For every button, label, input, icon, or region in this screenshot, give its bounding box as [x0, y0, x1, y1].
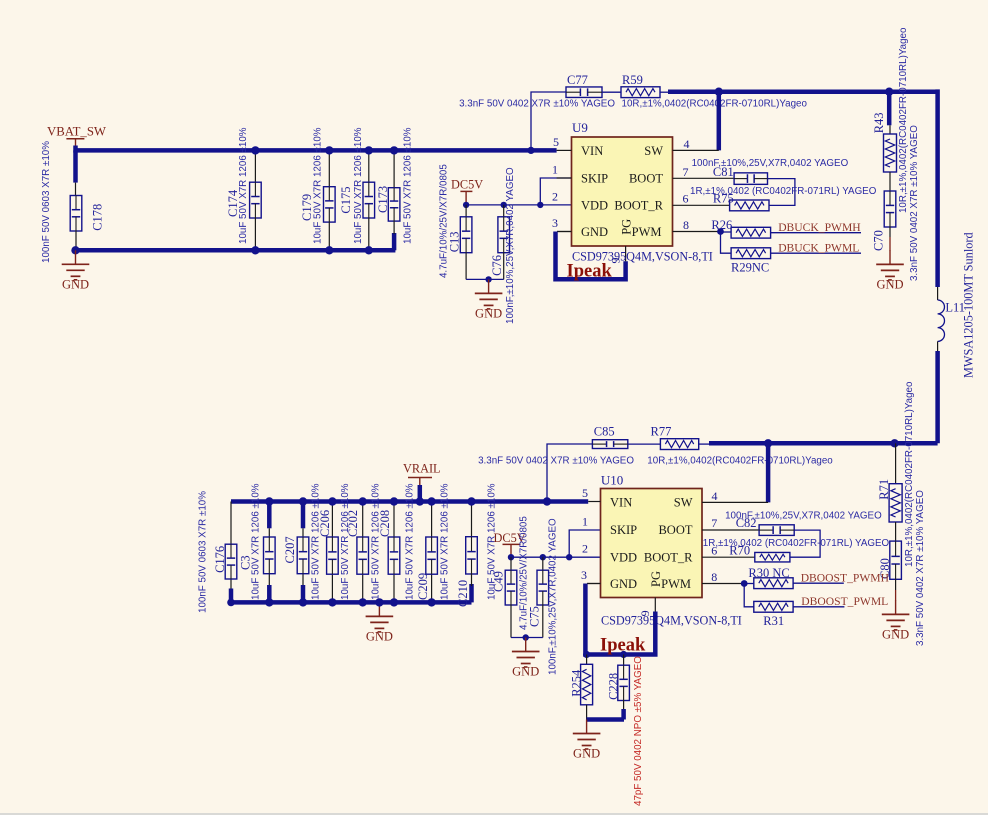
svg-text:VIN: VIN — [610, 495, 632, 509]
wire R77 to right bus — [699, 442, 938, 445]
svg-text:C207: C207 — [283, 536, 297, 563]
node DBOOST_PWMH label — [801, 571, 890, 584]
svg-text:BOOT: BOOT — [658, 523, 692, 537]
resistor R30 (NC) — [744, 566, 793, 589]
junction C85 branch — [543, 497, 551, 505]
wire R254/C228 ground rail — [587, 709, 624, 720]
pin 5 VIN U10 — [582, 486, 632, 509]
capacitor C77 — [459, 73, 615, 110]
op-amp U10 power stage body — [601, 473, 703, 598]
junction C13/C76 gnd — [485, 276, 491, 282]
svg-text:R59: R59 — [622, 73, 643, 87]
wire Ipeak U9 loop — [556, 232, 626, 280]
capacitor C81 — [692, 158, 849, 184]
node DC5V power label top — [451, 178, 483, 205]
junction PWM branch U10 — [741, 580, 748, 587]
svg-text:DBOOST_PWMH: DBOOST_PWMH — [801, 571, 890, 584]
svg-text:Ipeak: Ipeak — [567, 262, 613, 282]
node Ipeak U10 label — [600, 636, 646, 656]
junction C75 top — [540, 554, 546, 560]
svg-text:R43: R43 — [872, 112, 886, 133]
svg-text:C75: C75 — [528, 606, 542, 627]
ground C80 — [882, 600, 910, 641]
capacitor C209 — [416, 483, 451, 602]
svg-text:3: 3 — [552, 216, 558, 230]
junction C209 bottom — [427, 598, 435, 606]
svg-text:7: 7 — [711, 516, 717, 530]
capacitor C178 — [41, 141, 105, 263]
junction C173 top — [390, 146, 398, 154]
svg-text:3: 3 — [581, 568, 587, 582]
junction C76 top — [501, 202, 507, 208]
junction C3 bottom — [265, 598, 273, 606]
svg-text:10uF 50V X7R 1206 ±10%: 10uF 50V X7R 1206 ±10% — [340, 483, 351, 600]
wire SW drop — [717, 92, 722, 151]
svg-text:7: 7 — [683, 165, 689, 179]
junction DC5V stem — [463, 202, 469, 208]
svg-text:VDD: VDD — [581, 198, 608, 212]
svg-text:VBAT_SW: VBAT_SW — [47, 125, 107, 139]
svg-text:4: 4 — [684, 137, 690, 151]
node VRAIL power label — [403, 462, 441, 488]
node Ipeak U9 label — [567, 262, 613, 282]
resistor R71 — [877, 381, 915, 567]
wire C80 to ground — [895, 579, 897, 601]
wire R59 to SW node top bus — [660, 91, 938, 94]
junction top bank gnd corner — [71, 246, 79, 254]
svg-text:R71: R71 — [877, 479, 891, 500]
junction C208 bottom — [390, 598, 398, 606]
svg-text:10R,±1%,0402(RC0402FR-0710RL)Y: 10R,±1%,0402(RC0402FR-0710RL)Yageo — [904, 381, 915, 567]
wire R43 stub — [887, 92, 892, 134]
junction C202 bottom — [359, 598, 367, 606]
svg-text:BOOT_R: BOOT_R — [614, 198, 663, 212]
junction SW drop U10 — [764, 439, 772, 447]
pin 1 SKIP — [552, 162, 608, 185]
junction C179 bottom — [325, 246, 333, 254]
pin 2 VDD U10 — [582, 542, 637, 565]
pin 1 SKIP U10 — [582, 514, 637, 537]
junction C179 top — [325, 146, 333, 154]
wire C13/C76 ground rail — [466, 278, 504, 280]
pin 6 BOOT_R — [614, 192, 729, 213]
wire C85 to R77 — [628, 443, 661, 445]
node DBUCK_PWMH label — [778, 221, 861, 234]
svg-text:SW: SW — [674, 495, 693, 509]
op-amp U9 power stage body — [572, 120, 673, 246]
pin 4 SW — [644, 137, 719, 158]
ground C13/C76 — [475, 279, 503, 320]
capacitor C82 — [725, 510, 882, 535]
svg-text:GND: GND — [62, 277, 89, 291]
resistor R75 — [690, 186, 877, 211]
svg-text:R31: R31 — [763, 614, 784, 628]
svg-text:DBUCK_PWMH: DBUCK_PWMH — [778, 221, 861, 234]
svg-text:GND: GND — [610, 577, 637, 591]
junction VRAIL stem — [416, 497, 424, 505]
svg-text:GND: GND — [475, 306, 502, 320]
resistor R77 — [647, 424, 833, 466]
wire top bank GND rail — [76, 233, 396, 250]
capacitor C80 — [878, 490, 926, 646]
svg-text:3.3nF 50V 0402 X7R ±10% YAGEO: 3.3nF 50V 0402 X7R ±10% YAGEO — [478, 456, 634, 467]
junction C208 top — [390, 497, 398, 505]
junction C210 top — [467, 497, 475, 505]
junction C77 branch — [527, 147, 534, 154]
svg-text:PG: PG — [620, 219, 634, 235]
svg-text:C206: C206 — [318, 510, 332, 537]
svg-text:C202: C202 — [346, 510, 360, 537]
svg-text:C175: C175 — [339, 187, 353, 214]
svg-text:8: 8 — [683, 218, 689, 232]
svg-text:U9: U9 — [572, 120, 588, 135]
svg-text:GND: GND — [573, 747, 600, 761]
svg-text:100nF,±10%,25V,X7R,0402 YAGEO: 100nF,±10%,25V,X7R,0402 YAGEO — [547, 518, 558, 675]
wire R31 to DBOOST_PWML — [793, 606, 844, 608]
svg-text:R77: R77 — [651, 424, 672, 438]
svg-text:PWM: PWM — [661, 577, 691, 591]
junction R71 branch — [890, 439, 898, 447]
svg-text:4.7uF/10%/25V/X7R/0805: 4.7uF/10%/25V/X7R/0805 — [439, 164, 450, 278]
node DBUCK_PWML label — [778, 242, 859, 255]
svg-text:10R,±1%,0402(RC0402FR-0710RL)Y: 10R,±1%,0402(RC0402FR-0710RL)Yageo — [622, 99, 808, 110]
junction PWM branch — [717, 228, 724, 235]
svg-text:6: 6 — [683, 192, 689, 206]
svg-text:2: 2 — [552, 189, 558, 203]
resistor R26 — [711, 218, 770, 238]
capacitor C173 — [376, 127, 414, 244]
wire inductor to bottom bus — [937, 341, 939, 443]
capacitor C3 — [239, 483, 276, 602]
resistor R43 — [872, 27, 909, 213]
junction C175 top — [365, 146, 373, 154]
capacitor C208 — [378, 483, 416, 602]
wire C176 risers — [230, 502, 232, 603]
svg-text:MWSA1205-100MT Sunlord: MWSA1205-100MT Sunlord — [961, 232, 975, 378]
wire C77 to R59 — [602, 91, 621, 93]
resistor R70 — [703, 538, 890, 562]
capacitor C70 — [872, 125, 921, 281]
svg-text:3.3nF 50V 0402 X7R ±10% YAGEO: 3.3nF 50V 0402 X7R ±10% YAGEO — [909, 125, 920, 281]
pin 9 PG U10 — [638, 571, 663, 616]
wire BOOT loop U10 — [790, 530, 820, 557]
junction SKIP jog — [537, 202, 543, 208]
svg-text:SW: SW — [644, 144, 663, 158]
wire BOOT loop — [768, 179, 795, 206]
wire R30 to DBOOST_PWMH — [793, 582, 844, 584]
svg-text:C176: C176 — [213, 546, 227, 573]
junction C175 bottom — [365, 246, 373, 254]
node DC5V power label bottom — [494, 531, 526, 557]
resistor R59 — [621, 73, 808, 110]
svg-text:1: 1 — [582, 514, 588, 528]
wire DC5V to U10 VDD — [511, 556, 601, 558]
svg-text:R29NC: R29NC — [731, 261, 769, 275]
svg-text:SKIP: SKIP — [610, 523, 637, 537]
wire Ipeak U10 loop — [585, 584, 655, 655]
capacitor C85 — [478, 424, 634, 466]
svg-text:C178: C178 — [91, 204, 105, 231]
pin 3 GND — [552, 216, 608, 239]
svg-text:C228: C228 — [606, 673, 620, 700]
svg-text:C209: C209 — [416, 573, 430, 600]
svg-text:100nF,±10%,25V,X7R,0402 YAGEO: 100nF,±10%,25V,X7R,0402 YAGEO — [692, 158, 849, 169]
svg-text:R254: R254 — [569, 669, 583, 697]
resistor R254 — [569, 655, 592, 720]
capacitor C76 — [490, 167, 516, 324]
svg-text:BOOT_R: BOOT_R — [644, 550, 693, 564]
wire R29 to DBUCK_PWML — [771, 252, 861, 254]
svg-text:GND: GND — [581, 225, 608, 239]
wire R71 to C80 — [895, 522, 897, 541]
svg-text:R30 NC: R30 NC — [748, 566, 789, 580]
pin 4 SW U10 — [674, 489, 768, 509]
wire bottom bank GND rail — [231, 584, 472, 602]
svg-text:10R,±1%,0402(RC0402FR-0710RL)Y: 10R,±1%,0402(RC0402FR-0710RL)Yageo — [647, 456, 833, 467]
capacitor C228 — [606, 655, 644, 807]
svg-text:DBUCK_PWML: DBUCK_PWML — [778, 242, 859, 255]
junction C207 bottom — [299, 598, 307, 606]
capacitor C13 — [439, 164, 472, 280]
pin 5 VIN — [553, 135, 603, 158]
junction R43 branch — [885, 88, 893, 96]
svg-text:3.3nF 50V 0402 X7R ±10% YAGEO: 3.3nF 50V 0402 X7R ±10% YAGEO — [915, 490, 926, 646]
svg-text:10uF 50V X7R 1206 ±10%: 10uF 50V X7R 1206 ±10% — [311, 483, 322, 600]
capacitor C206 — [318, 483, 351, 602]
wire R31 branch — [744, 584, 754, 607]
svg-text:C76: C76 — [490, 255, 504, 276]
junction C228 top — [620, 651, 627, 658]
wire SW drop U10 — [766, 443, 771, 502]
svg-text:R26: R26 — [711, 218, 732, 232]
junction C202 top — [359, 497, 367, 505]
svg-text:C49: C49 — [491, 571, 505, 592]
capacitor C202 — [346, 483, 381, 602]
svg-text:10uF 50V X7R 1206 ±10%: 10uF 50V X7R 1206 ±10% — [370, 483, 381, 600]
pin 2 VDD — [552, 189, 608, 212]
svg-text:1R,±1%,0402 (RC0402FR-071RL) Y: 1R,±1%,0402 (RC0402FR-071RL) YAGEO — [703, 538, 890, 549]
capacitor C75 — [528, 518, 559, 675]
svg-text:1R,±1%,0402 (RC0402FR-071RL) Y: 1R,±1%,0402 (RC0402FR-071RL) YAGEO — [690, 186, 877, 197]
junction C174 top — [251, 146, 259, 154]
wire R26 to DBUCK_PWMH — [771, 232, 861, 234]
svg-text:GND: GND — [512, 665, 539, 679]
capacitor C207 — [283, 483, 322, 602]
capacitor C49 — [491, 516, 529, 638]
svg-text:C85: C85 — [594, 424, 615, 438]
svg-text:PWM: PWM — [632, 225, 662, 239]
pin 7 BOOT — [629, 165, 734, 186]
capacitor C176 — [197, 491, 237, 613]
wire C85 branch from VRAIL bus — [547, 444, 592, 502]
capacitor C210 — [456, 483, 498, 607]
wire VBAT_SW top bus — [76, 146, 557, 151]
svg-text:100nF 50V 0603 X7R ±10%: 100nF 50V 0603 X7R ±10% — [197, 491, 208, 613]
inductor L11 — [938, 232, 976, 378]
svg-text:C208: C208 — [378, 510, 392, 537]
wire C49/C75 ground rail — [511, 637, 543, 639]
junction C49/C75 gnd — [523, 634, 529, 640]
pin 8 PWM U10 — [661, 570, 744, 591]
svg-text:8: 8 — [711, 570, 717, 584]
svg-text:4: 4 — [712, 489, 718, 503]
pin 9 PG — [609, 219, 634, 264]
svg-text:10uF 50V X7R 1206 ±10%: 10uF 50V X7R 1206 ±10% — [440, 483, 451, 600]
junction R254 top — [583, 651, 590, 658]
svg-text:VRAIL: VRAIL — [403, 462, 441, 476]
svg-text:1: 1 — [552, 162, 558, 176]
wire C77 branch from VIN bus — [531, 92, 566, 150]
capacitor C175 — [339, 127, 374, 250]
svg-text:5: 5 — [553, 135, 559, 149]
wire U10 SKIP jog — [569, 530, 600, 557]
resistor R29 (NC) — [731, 248, 771, 275]
svg-text:GND: GND — [882, 627, 909, 641]
junction gnd stem bottom bank — [375, 598, 383, 606]
resistor R31 — [754, 601, 793, 628]
wire SKIP pin jog — [540, 178, 571, 205]
svg-text:DBOOST_PWML: DBOOST_PWML — [801, 595, 888, 608]
pin 7 BOOT U10 — [658, 516, 759, 537]
junction C207 top — [299, 497, 307, 505]
wire VBAT_SW vertical to C178 — [73, 150, 78, 195]
svg-text:C70: C70 — [872, 230, 886, 251]
svg-text:5: 5 — [582, 486, 588, 500]
svg-text:C173: C173 — [376, 186, 390, 213]
capacitor C174 — [226, 127, 261, 250]
svg-text:3.3nF 50V 0402 X7R ±10% YAGEO: 3.3nF 50V 0402 X7R ±10% YAGEO — [459, 99, 615, 110]
node DBOOST_PWML label — [801, 595, 888, 608]
svg-text:100nF,±10%,25V,X7R,0402 YAGEO: 100nF,±10%,25V,X7R,0402 YAGEO — [505, 167, 516, 324]
svg-text:100nF 50V 0603 X7R ±10%: 100nF 50V 0603 X7R ±10% — [41, 141, 52, 263]
junction DC5V stem bottom — [508, 554, 514, 560]
svg-text:GND: GND — [366, 629, 393, 643]
ground top-left bank — [62, 250, 90, 291]
junction U10 SKIP jog — [566, 554, 572, 560]
junction SW drop — [715, 88, 723, 96]
ground R254 — [573, 720, 601, 761]
svg-text:VDD: VDD — [610, 550, 637, 564]
svg-text:2: 2 — [582, 542, 588, 556]
svg-text:10uF 50V X7R 1206 ±10%: 10uF 50V X7R 1206 ±10% — [403, 127, 414, 244]
svg-text:DC5V: DC5V — [451, 178, 483, 192]
svg-text:VIN: VIN — [581, 144, 603, 158]
junction C209 top — [427, 497, 435, 505]
wire R43 to C70 — [889, 172, 891, 191]
wire C70 to ground — [889, 227, 891, 251]
junction C3 top — [265, 497, 273, 505]
svg-text:10uF 50V X7R 1206 ±10%: 10uF 50V X7R 1206 ±10% — [238, 127, 249, 244]
ground bottom bank — [366, 602, 394, 643]
svg-text:GND: GND — [876, 277, 903, 291]
svg-text:10uF 50V X7R 1206 ±10%: 10uF 50V X7R 1206 ±10% — [312, 127, 323, 244]
wire DC5V to VDD pin — [466, 204, 571, 206]
capacitor C179 — [300, 127, 335, 250]
junction C206 top — [328, 497, 336, 505]
pin 3 GND U10 — [581, 568, 637, 591]
pin 6 BOOT_R U10 — [644, 544, 755, 565]
svg-text:100nF,±10%,25V,X7R,0402 YAGEO: 100nF,±10%,25V,X7R,0402 YAGEO — [725, 510, 882, 521]
ground C49/C75 — [512, 638, 540, 679]
svg-text:10uF 50V X7R 1206 ±10%: 10uF 50V X7R 1206 ±10% — [250, 483, 261, 600]
wire R29 branch — [721, 232, 732, 254]
svg-text:10uF 50V X7R 1206 ±10%: 10uF 50V X7R 1206 ±10% — [353, 127, 364, 244]
junction bottom bank left corner — [227, 599, 235, 607]
svg-text:10uF 50V X7R 1206 ±10%: 10uF 50V X7R 1206 ±10% — [404, 483, 415, 600]
svg-text:BOOT: BOOT — [629, 171, 663, 185]
pin 8 PWM — [632, 218, 721, 239]
wire VRAIL stem — [418, 485, 423, 502]
junction C174 bottom — [251, 246, 259, 254]
wire VRAIL top bus — [231, 499, 588, 504]
U10 part number label — [601, 614, 742, 628]
svg-text:C77: C77 — [567, 73, 588, 87]
svg-text:C210: C210 — [456, 580, 470, 607]
svg-text:47pF 50V 0402 NPO ±5% YAGEO: 47pF 50V 0402 NPO ±5% YAGEO — [633, 656, 644, 806]
svg-text:PG: PG — [649, 571, 663, 587]
U9 part number label — [572, 250, 713, 264]
node VBAT_SW power label — [47, 125, 107, 148]
ground C70 — [876, 250, 904, 291]
svg-text:SKIP: SKIP — [581, 171, 608, 185]
wire right bus down to inductor — [935, 89, 940, 300]
junction C206 bottom — [328, 598, 336, 606]
svg-text:CSD97395Q4M,VSON-8,TI: CSD97395Q4M,VSON-8,TI — [601, 614, 742, 628]
svg-text:10R,±1%,0402(RC0402FR-0710RL)Y: 10R,±1%,0402(RC0402FR-0710RL)Yageo — [898, 27, 909, 213]
svg-text:U10: U10 — [601, 473, 623, 488]
